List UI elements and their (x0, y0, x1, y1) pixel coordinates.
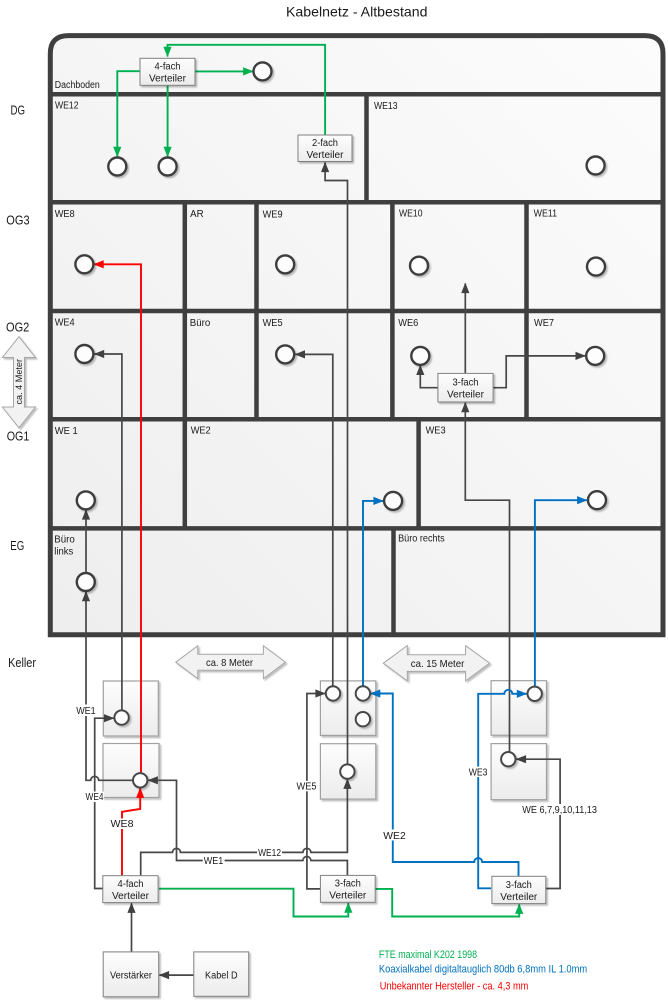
outlet Dachboden (254, 62, 272, 80)
wire black: keller M4 outlet up to 2-fach Verteiler input (325, 162, 347, 764)
outlet WE4 (75, 345, 93, 363)
wire black: WE12 line from keller 4-fach up over to M4 outlet (141, 779, 348, 875)
wire blue: right 3-fach top to M2 outlet (WE2 line) (371, 694, 519, 877)
svg-text:WE 1: WE 1 (55, 426, 78, 437)
wire black: keller right 3-fach right output to R2 outlet (516, 759, 560, 888)
svg-text:OG3: OG3 (6, 214, 29, 228)
wire red: riser down from WE8 outlet to box2 outlet top (94, 264, 141, 773)
outlet WE12 b (159, 158, 177, 176)
wire red: keller 4-fach top up to box2 outlet bottom (122, 788, 140, 875)
wire black: Verstaerker up to keller 4-fach input (131, 903, 133, 951)
svg-text:Kabelnetz - Altbestand: Kabelnetz - Altbestand (286, 4, 428, 20)
svg-text:Verteiler: Verteiler (307, 150, 345, 161)
svg-text:WE3: WE3 (426, 426, 446, 437)
wire green: DG 4-fach right to Dachboden outlet (195, 70, 253, 72)
floor line OG1/EG (48, 526, 666, 531)
keller outlet M4 (340, 764, 354, 778)
wall WE5/WE6 (390, 311, 395, 419)
wall WE12/WE13 (364, 94, 369, 202)
svg-text:ca. 8 Meter: ca. 8 Meter (206, 657, 253, 669)
wall WE10/WE11 (524, 202, 529, 311)
box Kabel D (194, 952, 249, 996)
svg-text:WE5: WE5 (263, 318, 283, 329)
keller junction box 3 (middle top) (320, 681, 375, 736)
svg-text:links: links (54, 547, 73, 558)
keller junction box 6 (right bottom) (491, 744, 546, 800)
svg-text:Büro: Büro (54, 535, 75, 546)
svg-text:WE9: WE9 (263, 210, 283, 221)
keller outlet box1 (114, 710, 128, 724)
wire black: keller mid 3-fach left output to M1 outlet (307, 694, 325, 889)
wire black: Buero links outlet up to WE 1 outlet (85, 510, 87, 573)
svg-text:WE12: WE12 (258, 848, 281, 859)
svg-text:Koaxialkabel digitaltauglich 8: Koaxialkabel digitaltauglich 80db 6,8mm … (379, 964, 587, 976)
wire blue: right 3-fach left output to R1 outlet (WE3 line) (478, 690, 526, 889)
svg-text:EG: EG (10, 539, 24, 553)
svg-text:WE4: WE4 (55, 318, 75, 329)
double arrow ca. 15 Meter (383, 646, 489, 681)
keller junction box 1 (WE4 tap) (103, 681, 158, 736)
wire green: 2-fach top to DG 4-fach input (168, 45, 326, 135)
wire black: R2 outlet up to OG2 3-fach Verteiler input (465, 403, 509, 752)
label WE1 on line (203, 856, 225, 867)
svg-text:ca. 15 Meter: ca. 15 Meter (411, 658, 465, 670)
keller junction box 5 (right top) (491, 681, 546, 736)
floor line OG2/OG1 (48, 417, 666, 422)
wall Buero links/rechts (391, 528, 396, 634)
label WE12 on line (257, 847, 282, 858)
svg-text:AR: AR (190, 209, 204, 220)
svg-text:Verteiler: Verteiler (112, 891, 150, 902)
svg-text:WE1: WE1 (76, 706, 96, 717)
wire green: DG 4-fach bottom to WE12 outlet b (167, 86, 169, 157)
keller wire labels with white backgrounds (75, 705, 598, 868)
svg-text:Verteiler: Verteiler (500, 892, 538, 903)
label WE4 keller left (85, 792, 105, 803)
svg-text:WE6: WE6 (398, 318, 418, 329)
label WE8 keller (110, 819, 135, 830)
double arrow ca. 8 Meter (176, 646, 286, 679)
outlet WE9 (276, 255, 294, 273)
wire green: mid 3-fach right to right 3-fach input (375, 889, 519, 917)
svg-text:Verteiler: Verteiler (329, 891, 367, 902)
svg-text:Unbekannter Hersteller - ca. 4: Unbekannter Hersteller - ca. 4,3 mm (380, 980, 529, 992)
wire black: OG2 3-fach left to WE6 outlet (420, 365, 438, 387)
outlet WE12 a (108, 158, 126, 176)
box 3-fach Verteiler OG2 (438, 373, 493, 402)
outlet WE7 (586, 347, 604, 365)
box 4-fach Verteiler DG (140, 58, 195, 85)
svg-text:WE1: WE1 (204, 856, 224, 867)
box Verstaerker (103, 952, 159, 997)
wire black: Kabel D left to Verstaerker input (159, 974, 193, 976)
wire green: DG 4-fach left to WE12 outlet a (117, 71, 140, 156)
svg-text:Büro rechts: Büro rechts (398, 534, 445, 545)
box 3-fach Verteiler Keller middle (320, 875, 375, 902)
wire black: box2 outlet left to Buero-links riser corner (86, 592, 133, 781)
wire black: M1 outlet up to WE5 outlet (295, 354, 333, 686)
building outline (50, 36, 663, 635)
svg-text:WE11: WE11 (534, 209, 558, 220)
svg-text:Keller: Keller (8, 656, 36, 670)
wall Buero/WE5 (254, 311, 259, 419)
svg-text:WE10: WE10 (399, 209, 423, 220)
svg-text:WE2: WE2 (191, 426, 211, 437)
wire blue: R1 outlet up to WE3 outlet (535, 500, 587, 686)
keller junction box 4 (middle bottom) (320, 744, 375, 799)
keller junction box 2 (WE8 tap) (103, 744, 159, 798)
svg-text:3-fach: 3-fach (506, 880, 532, 891)
box 3-fach Verteiler Keller right (492, 876, 546, 903)
label WE 6,7,9,10,11,13 (521, 804, 598, 815)
svg-text:OG1: OG1 (7, 430, 30, 444)
floor line OG3/OG2 (48, 309, 666, 314)
svg-text:WE7: WE7 (534, 318, 554, 329)
svg-text:WE3: WE3 (469, 767, 488, 778)
keller outlet R2 (501, 752, 515, 766)
floor line DG/OG3 (48, 200, 666, 205)
wire black: OG2 3-fach right to WE7 outlet (493, 356, 585, 388)
label WE5 keller (296, 781, 318, 792)
svg-text:Verteiler: Verteiler (447, 390, 485, 401)
wall WE1/WE2 (183, 419, 188, 528)
svg-text:WE 6,7,9,10,11,13: WE 6,7,9,10,11,13 (522, 805, 597, 816)
vertical double arrow ca. 4 Meter (2, 337, 35, 428)
svg-text:WE13: WE13 (374, 101, 398, 112)
wire black: keller 4-fach left output to box1 outlet (95, 718, 114, 888)
outlet WE8 (75, 255, 93, 273)
svg-text:2-fach: 2-fach (312, 138, 338, 149)
outlet WE11 (587, 258, 605, 276)
keller outlet M3 (356, 712, 370, 726)
svg-text:OG2: OG2 (6, 321, 29, 335)
svg-text:3-fach: 3-fach (335, 879, 361, 890)
svg-text:4-fach: 4-fach (118, 879, 144, 890)
outlet WE2 (384, 492, 402, 510)
svg-text:Büro: Büro (190, 318, 211, 329)
wall WE2/WE3 (416, 419, 421, 528)
svg-text:WE4: WE4 (86, 792, 104, 803)
svg-text:WE5: WE5 (297, 782, 317, 793)
wire blue: M2 outlet up to WE2 outlet (363, 501, 383, 686)
wire black: OG2 3-fach top up into WE10 (464, 283, 466, 373)
box 2-fach Verteiler DG (298, 135, 352, 162)
room labels (54, 80, 557, 558)
svg-text:FTE maximal K202 1998: FTE maximal K202 1998 (379, 949, 477, 961)
legend (379, 949, 587, 993)
label WE1 keller left (75, 705, 97, 717)
outlet WE5 (276, 345, 294, 363)
floor line Dachboden/DG (48, 92, 666, 97)
svg-text:WE2: WE2 (383, 831, 406, 842)
keller outlet M1 (326, 686, 340, 700)
svg-text:WE8: WE8 (111, 819, 134, 830)
svg-text:4-fach: 4-fach (155, 62, 181, 73)
svg-text:WE8: WE8 (55, 209, 75, 220)
svg-text:3-fach: 3-fach (453, 378, 479, 389)
outlet WE10 (410, 257, 428, 275)
outlet WE13 (587, 157, 605, 175)
svg-text:WE12: WE12 (55, 101, 79, 112)
svg-text:DG: DG (11, 104, 26, 118)
wall WE6/WE7 (524, 311, 529, 419)
keller outlet M2 (356, 686, 370, 700)
outlet WE6 (411, 347, 429, 365)
wire black: box1 outlet up to WE4 outlet (95, 354, 122, 710)
outlet WE3 (588, 491, 606, 509)
label WE2 keller (382, 830, 406, 841)
wire green: keller 4-fach right to mid 3-fach input (159, 889, 348, 917)
svg-text:Dachboden: Dachboden (55, 80, 100, 91)
svg-text:ca. 4 Meter: ca. 4 Meter (14, 359, 24, 405)
label WE3 keller (468, 767, 489, 778)
wall AR/WE9 (254, 202, 259, 311)
box 4-fach Verteiler Keller (103, 876, 158, 903)
wall WE8/AR (183, 202, 188, 311)
wall WE9/WE10 (390, 202, 395, 311)
keller outlet R1 (528, 687, 542, 701)
outlet Buero links (77, 573, 95, 591)
svg-text:Kabel D: Kabel D (205, 970, 238, 981)
svg-text:Verteiler: Verteiler (149, 74, 187, 85)
outlet WE 1 (77, 491, 95, 509)
wire black: WE1 line from keller mid 3-fach top to box2 outlet (148, 780, 347, 875)
svg-text:Verstärker: Verstärker (110, 970, 153, 981)
wall WE4/Buero (183, 311, 188, 419)
keller outlet box2 (133, 773, 147, 787)
